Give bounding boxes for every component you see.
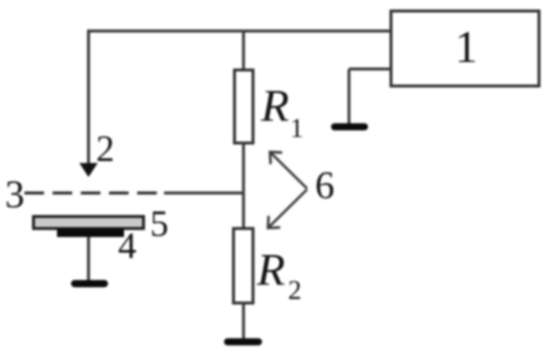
svg-text:R: R xyxy=(260,80,289,131)
arrow lower node 6 xyxy=(268,190,307,229)
wire R1 to R2 xyxy=(242,143,245,229)
wire plate to ground xyxy=(87,237,90,281)
wire top horizontal xyxy=(87,30,391,33)
plate 5 xyxy=(34,217,144,229)
resistor R2 xyxy=(234,229,254,304)
wire junction horizontal xyxy=(164,192,244,195)
wire ground vertical xyxy=(348,69,351,124)
wire box to ground horizontal xyxy=(349,68,391,71)
ground under plate xyxy=(71,280,108,287)
svg-text:1: 1 xyxy=(455,22,478,72)
svg-text:2: 2 xyxy=(288,275,302,305)
svg-text:5: 5 xyxy=(150,204,169,245)
wire left vertical to arrow xyxy=(87,30,90,165)
box U1 (block 1) xyxy=(391,11,539,86)
ground near box xyxy=(331,123,368,130)
wire R2 to ground xyxy=(242,303,245,340)
svg-text:3: 3 xyxy=(5,173,25,216)
svg-text:R: R xyxy=(256,244,285,295)
svg-text:6: 6 xyxy=(315,164,335,207)
wire drop to R1 xyxy=(242,30,245,70)
arrow upper node 6 xyxy=(270,152,307,189)
resistor R1 xyxy=(235,70,254,143)
electrode bar 4 xyxy=(57,229,124,238)
svg-text:2: 2 xyxy=(96,129,115,170)
ground bottom xyxy=(224,338,262,345)
svg-text:4: 4 xyxy=(118,226,137,267)
svg-text:1: 1 xyxy=(290,113,304,143)
dashed line node 3 xyxy=(24,192,156,195)
arrowhead node 2 xyxy=(79,163,97,177)
